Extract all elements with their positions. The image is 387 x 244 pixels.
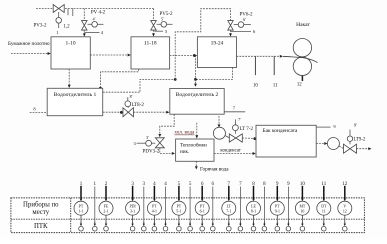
svg-text:Водоотделитель 2: Водоотделитель 2 <box>176 92 219 98</box>
svg-text:LT 7-2: LT 7-2 <box>240 127 254 132</box>
svg-text:5-1: 5-1 <box>176 210 181 214</box>
svg-text:12: 12 <box>343 210 347 214</box>
wire paper web in <box>11 53 49 55</box>
wire PV4-2 branch <box>83 9 85 21</box>
instrument LE 8-1 <box>247 182 261 231</box>
wire PDV3-2 to heat exchanger <box>160 148 173 154</box>
instrument PT 4-1 <box>147 182 161 231</box>
svg-text:LE: LE <box>251 204 256 208</box>
svg-text:PT: PT <box>79 204 84 208</box>
svg-text:11: 11 <box>273 84 278 89</box>
node tap 7 <box>224 106 245 112</box>
node water separator 1 <box>47 88 102 115</box>
node heat exchanger <box>176 139 214 161</box>
svg-text:Приборы по: Приборы по <box>23 202 59 209</box>
svg-text:1: 1 <box>56 30 58 35</box>
svg-text:Бумажное полотно: Бумажное полотно <box>8 41 50 47</box>
node instrument table frame <box>11 198 365 233</box>
valve PV3-2 <box>33 5 64 36</box>
wire separator1 to LT8-2 <box>103 111 123 113</box>
wire cold water in <box>196 123 198 137</box>
instrument DT 11 <box>317 182 331 231</box>
svg-text:ПТК: ПТК <box>34 223 48 230</box>
wire into 11-18 <box>153 30 155 35</box>
instrument PT 6-1 <box>195 182 209 231</box>
svg-text:DT: DT <box>321 204 327 208</box>
wire LT8-2 to separator2 <box>134 111 168 113</box>
valve PV5-2 <box>151 12 173 30</box>
svg-text:10: 10 <box>300 210 304 214</box>
node tap 10 <box>254 56 256 75</box>
svg-text:8-1: 8-1 <box>251 210 256 214</box>
node signal 3 direct <box>142 182 147 231</box>
instrument LT 7-1 <box>222 182 236 231</box>
instrument PDI 3-1 <box>126 182 140 231</box>
svg-text:1-1: 1-1 <box>78 210 83 214</box>
wire hot water out <box>195 161 197 167</box>
svg-text:7-1: 7-1 <box>226 210 231 214</box>
svg-text:конденсат: конденсат <box>220 149 241 154</box>
wire vent riser to PV6-2 <box>103 79 175 92</box>
svg-text:2-1: 2-1 <box>103 210 108 214</box>
instrument V 12 <box>338 182 352 231</box>
svg-text:3-1: 3-1 <box>130 210 135 214</box>
wire into 19-24 <box>230 30 232 35</box>
valve PV6-2 <box>228 13 253 31</box>
svg-text:PV3-2: PV3-2 <box>33 23 47 28</box>
svg-text:6′: 6′ <box>243 17 246 22</box>
svg-text:9-1: 9-1 <box>275 210 280 214</box>
node dryer group 11-18 <box>131 37 170 69</box>
node reel <box>283 22 318 88</box>
svg-text:1-10: 1-10 <box>66 41 76 47</box>
instrument MT 10 <box>295 182 309 231</box>
wire condensate line <box>214 153 254 155</box>
svg-text:FE: FE <box>104 204 109 208</box>
instrument PT 1-1 <box>74 182 88 231</box>
node tap 11 <box>273 56 275 75</box>
svg-text:PT: PT <box>200 204 205 208</box>
valve PDV3-2 <box>133 135 164 154</box>
svg-text:Горячая вода: Горячая вода <box>200 167 229 173</box>
node inlet 8 <box>30 106 48 112</box>
wire web 1-10 to 11-18 <box>90 54 129 56</box>
wire tank to pump <box>316 143 325 145</box>
instrument PT 5-1 <box>172 182 186 231</box>
svg-text:PDI: PDI <box>129 204 136 208</box>
svg-text:PT: PT <box>152 204 157 208</box>
svg-text:Бак конденсата: Бак конденсата <box>263 128 299 134</box>
node taps 1,2 <box>63 9 72 30</box>
svg-text:8′: 8′ <box>130 94 133 99</box>
node dryer group 19-24 <box>197 37 236 68</box>
svg-text:LT8-2: LT8-2 <box>132 103 145 108</box>
node condensate tank <box>256 125 316 157</box>
wire separator2 drain <box>160 114 174 134</box>
svg-text:PV 4-2: PV 4-2 <box>91 11 106 16</box>
svg-text:11-18: 11-18 <box>144 41 157 47</box>
svg-text:Водоотделитель 1: Водоотделитель 1 <box>54 92 97 98</box>
node water separator 2 <box>170 89 224 115</box>
node dryer group 1-10 <box>51 37 90 69</box>
wire web 11-18 to 19-24 <box>170 55 196 57</box>
svg-text:PV6-2: PV6-2 <box>239 13 253 18</box>
wire 1-10 drain <box>68 69 70 87</box>
svg-text:Накат: Накат <box>296 22 310 28</box>
svg-text:хол. вода: хол. вода <box>174 130 195 136</box>
wire into 1-10 <box>83 30 85 35</box>
svg-text:9′: 9′ <box>354 123 357 128</box>
pump P2 <box>327 138 339 150</box>
svg-text:LT9-2: LT9-2 <box>354 138 366 143</box>
svg-text:PT: PT <box>275 204 280 208</box>
wire LT7-2 to tank <box>242 137 254 139</box>
wire outlet <box>357 148 370 150</box>
instrument FE 2-1 <box>99 182 113 231</box>
node signal 8 direct <box>262 182 267 231</box>
svg-text:4-1: 4-1 <box>152 210 157 214</box>
svg-text:1,2: 1,2 <box>63 25 70 30</box>
node tap 6 <box>231 30 252 32</box>
valve LT8-2 <box>123 94 144 117</box>
wire PV5-2 riser <box>153 9 155 21</box>
valve PV4-2 <box>82 11 106 30</box>
wire steam header <box>36 8 154 10</box>
valve LT 7-2 <box>225 117 253 142</box>
node signal 1 direct <box>93 182 98 231</box>
svg-text:11: 11 <box>322 210 326 214</box>
valve LT9-2 <box>339 123 366 154</box>
svg-text:7′: 7′ <box>238 117 241 122</box>
svg-text:PDV3-2: PDV3-2 <box>143 150 160 155</box>
svg-text:PT: PT <box>177 204 182 208</box>
node signal 6 direct <box>211 182 216 231</box>
pump P1 <box>213 127 225 139</box>
svg-text:Теплообмен: Теплообмен <box>180 142 207 149</box>
wire 19-24 drain <box>196 68 233 80</box>
svg-text:6-1: 6-1 <box>200 210 205 214</box>
node signal 4 direct <box>163 182 168 231</box>
node signal 7 direct <box>238 182 243 231</box>
node tap 4 <box>84 32 99 34</box>
svg-text:12: 12 <box>297 83 302 88</box>
instrument PT 9-1 <box>270 182 284 231</box>
wire web 19-24 to reel <box>237 55 282 57</box>
node tap 9 <box>316 124 336 129</box>
node tap 5 <box>155 30 164 32</box>
svg-text:LT: LT <box>227 204 232 208</box>
svg-text:4′: 4′ <box>93 17 96 22</box>
wire separator2 to pump <box>218 116 220 125</box>
svg-text:MT: MT <box>299 204 305 208</box>
wire 11-18 drain <box>100 69 138 87</box>
svg-text:19-24: 19-24 <box>211 41 224 47</box>
node signal 9 direct <box>286 182 291 231</box>
node signal 5 direct <box>188 182 193 231</box>
svg-text:V: V <box>343 204 346 208</box>
svg-text:ник.: ник. <box>180 149 189 155</box>
wire steam drop to separator 2 <box>195 56 197 86</box>
svg-text:5′: 5′ <box>161 17 164 22</box>
svg-text:3′: 3′ <box>146 135 149 140</box>
svg-text:месту: месту <box>32 209 49 216</box>
svg-text:10: 10 <box>253 84 258 89</box>
